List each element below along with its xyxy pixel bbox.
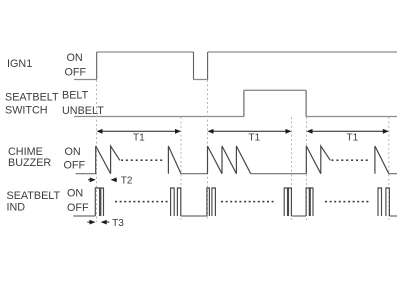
svg-text:ON: ON [65,146,81,158]
svg-text:T1: T1 [347,133,359,144]
wire CHIME BUZZER sawtooth period 3 last tooth [375,146,389,174]
wire CHIME BUZZER sawtooth period 3 [306,146,330,174]
wire CHIME BUZZER dotted continuation period 3 [332,159,368,161]
dimension arrow T1 second span [209,130,290,132]
wire IGN1 waveform horizontal segments [74,52,397,80]
svg-text:BELT: BELT [62,90,89,102]
dimension arrow T3 left [87,221,93,223]
wire IGN1 waveform vertical edges [97,52,208,80]
svg-text:ON: ON [67,52,83,64]
svg-text:OFF: OFF [64,160,86,172]
wire CHIME BUZZER dotted continuation period 1 [121,159,162,161]
node dashed guide line at second T1 end x=291.5 [291,117,293,220]
wire CHIME BUZZER sawtooth period 1 last tooth [168,146,181,174]
dimension arrow T3 right [104,221,110,223]
svg-text:T1: T1 [133,133,145,144]
node dashed guide line at second T1 start x=207.5 [207,80,209,220]
dimension arrow T1 first span [98,130,180,132]
svg-text:BUZZER: BUZZER [8,157,51,169]
dimension arrow T2 right [113,179,117,181]
wire SEATBELT IND baseline OFF segments [73,215,397,217]
wire SEATBELT IND dotted continuation 2 [221,201,274,203]
svg-text:UNBELT: UNBELT [62,105,104,117]
node dashed guide line at first T1 start x=96.5 [96,80,98,222]
svg-text:SWITCH: SWITCH [5,105,48,117]
svg-text:ON: ON [67,187,83,199]
svg-text:T2: T2 [121,176,133,187]
wire SEATBELT IND dotted continuation 1 [115,201,168,203]
svg-text:T1: T1 [249,133,261,144]
wire SEATBELT SWITCH waveform horizontal segments [74,90,397,116]
wire SEATBELT SWITCH waveform vertical edges [244,90,306,116]
dimension arrow T2 left [88,179,93,181]
dimension arrow T1 third span [308,130,387,132]
wire CHIME BUZZER baseline OFF segments [76,173,398,175]
wire SEATBELT IND dotted continuation 3 [325,201,368,203]
svg-text:IGN1: IGN1 [7,58,32,70]
node dashed guide line at first T1 end x=181 [180,117,182,220]
wire SEATBELT IND double flash pulses at each event [95,188,389,216]
svg-text:SEATBELT: SEATBELT [7,190,61,202]
wire CHIME BUZZER sawtooth period 1 [96,146,120,174]
svg-text:OFF: OFF [65,66,87,78]
svg-text:OFF: OFF [67,202,89,214]
svg-text:IND: IND [7,202,26,214]
wire CHIME BUZZER sawtooth period 2 three teeth [208,146,251,174]
svg-text:SEATBELT: SEATBELT [5,92,59,104]
node dashed guide line at third T1 start x=306.5 [306,117,308,220]
svg-text:T3: T3 [112,218,124,229]
node dashed guide line at third T1 end x=388.8 [388,117,390,220]
